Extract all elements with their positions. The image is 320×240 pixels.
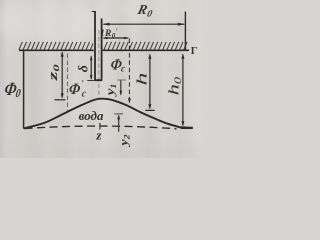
svg-text:Γ: Γ xyxy=(191,46,198,57)
svg-text:1R0': 1R0' xyxy=(100,28,118,40)
svg-text:вода: вода xyxy=(79,108,104,123)
svg-text:h: h xyxy=(133,72,150,85)
svg-text:z: z xyxy=(95,128,102,143)
svg-text:δ: δ xyxy=(76,65,91,72)
